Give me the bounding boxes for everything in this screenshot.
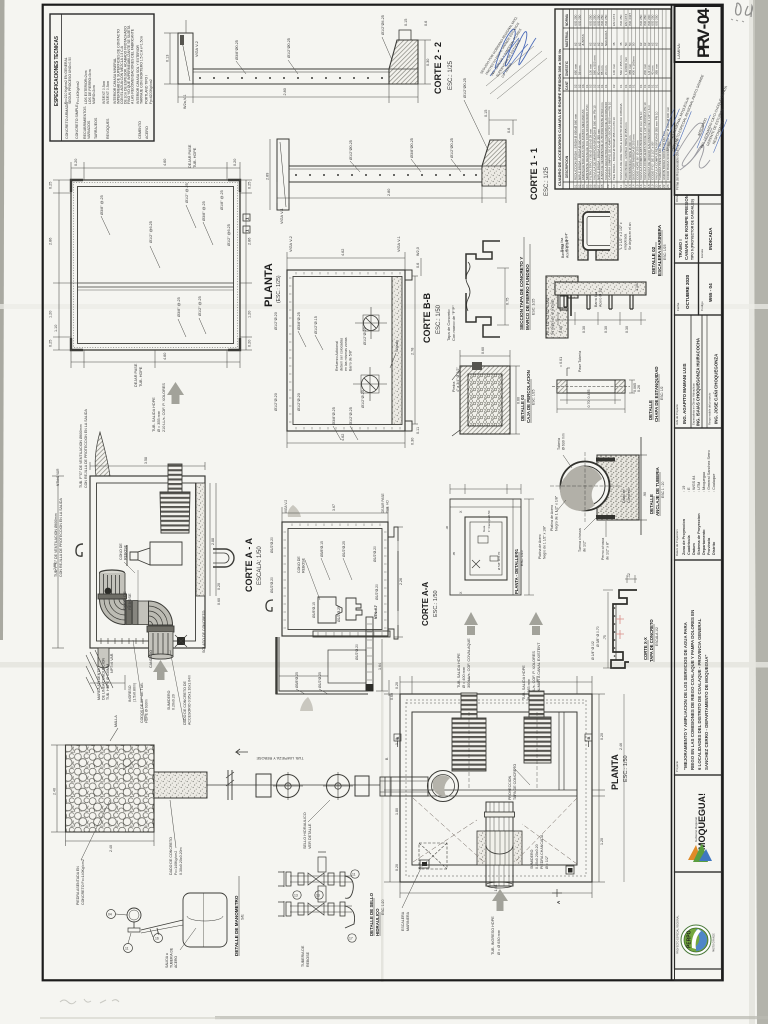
svg-text:17: 17 <box>349 937 353 941</box>
svg-text:Platina de Acero: Platina de Acero <box>550 505 554 531</box>
svg-text:.30: .30 <box>445 525 449 530</box>
fold crease lower <box>0 662 768 668</box>
faint red cross marks <box>616 615 624 639</box>
svg-text:MARCO DE FIERRO FUNDIDO: MARCO DE FIERRO FUNDIDO <box>525 264 530 330</box>
svg-text:PASTO GRANDE: PASTO GRANDE <box>713 933 716 952</box>
svg-text:"MEJORAMIENTO Y AMPLIACION DE: "MEJORAMIENTO Y AMPLIACION DE LOS SERVIC… <box>683 621 688 770</box>
limpieza pipe line with valves <box>207 749 380 849</box>
svg-text:Ø1/2"Ø.20: Ø1/2"Ø.20 <box>363 327 367 345</box>
svg-text:20 mm: 20 mm <box>604 65 608 75</box>
svg-text:DETALLE DE SELLO: DETALLE DE SELLO <box>369 892 374 936</box>
corte X-X channel profile <box>591 573 659 668</box>
svg-text:Ø1/2"Ø.20: Ø1/2"Ø.20 <box>375 584 379 600</box>
svg-text:10: 10 <box>612 184 616 188</box>
svg-text:TRAMO I: TRAMO I <box>678 239 683 258</box>
B section markers <box>394 734 592 747</box>
svg-text:S/E: S/E <box>241 914 245 920</box>
svg-text:TAPA DE CONCRETO: TAPA DE CONCRETO <box>649 619 654 662</box>
svg-text:16: 16 <box>155 937 159 941</box>
svg-text:0.6: 0.6 <box>424 21 428 26</box>
floor tick marks <box>101 638 143 644</box>
svg-text:0.25: 0.25 <box>248 182 252 189</box>
dims below <box>164 20 431 103</box>
svg-text:PROYECTO ESPECIAL REGIONAL: PROYECTO ESPECIAL REGIONAL <box>677 915 680 954</box>
svg-text:W2,0: W2,0 <box>416 247 420 256</box>
svg-text:Acero Ø 1/2: Acero Ø 1/2 <box>599 288 603 307</box>
svg-text:INDICADA: INDICADA <box>708 227 713 250</box>
svg-text:ESC.: 1/25: ESC.: 1/25 <box>448 60 454 90</box>
proyeccion tapa labels <box>508 764 517 800</box>
svg-text:13: 13 <box>294 894 298 898</box>
svg-text:ESC.: 1/25: ESC.: 1/25 <box>544 166 550 196</box>
svg-text:Pase Tuberia: Pase Tuberia <box>578 351 582 372</box>
rebar labels <box>274 312 399 425</box>
grey mound above left <box>288 505 301 517</box>
svg-text:0.30: 0.30 <box>604 326 608 333</box>
svg-text:600 x 160mm: 600 x 160mm <box>632 56 636 75</box>
left dimension chain <box>53 162 252 368</box>
svg-text:ESC.: 1/50: ESC.: 1/50 <box>623 755 629 782</box>
wall tick marks <box>284 524 387 629</box>
svg-text:0.11: 0.11 <box>416 427 420 434</box>
svg-text:TUB. INGRESO HDPE: TUB. INGRESO HDPE <box>491 916 495 955</box>
svg-text:Ø = 400 mm: Ø = 400 mm <box>462 667 466 688</box>
svg-text:Ø1/2"Ø.20: Ø1/2"Ø.20 <box>373 546 377 562</box>
corte A-A left chamber with elbow <box>52 409 263 725</box>
svg-text:1.10: 1.10 <box>54 325 58 332</box>
escalera sumidero label leader <box>402 868 421 908</box>
svg-text:Ø3/8"Ø.25: Ø3/8"Ø.25 <box>332 407 336 425</box>
svg-text:Ø1/2"Ø.20: Ø1/2"Ø.20 <box>361 390 365 408</box>
svg-text:DN/ESTIC: DN/ESTIC <box>565 60 569 76</box>
svg-text:TEE BRIDA - BRIDA Ø 560xØ 35: TEE BRIDA - BRIDA Ø 560xØ 355 mm PN 10 <box>612 117 616 180</box>
svg-text:Ø3/8" @.25: Ø3/8" @.25 <box>100 195 104 215</box>
svg-text:Se dejara en el an: Se dejara en el an <box>628 222 632 250</box>
svg-text:Ø = 1/2": Ø = 1/2" <box>545 855 549 869</box>
svg-text:.12: .12 <box>627 573 631 578</box>
caja de percolacion detail <box>452 347 536 436</box>
svg-text:0.26: 0.26 <box>637 385 641 392</box>
svg-text:ESCALERA: ESCALERA <box>401 911 405 931</box>
bolts <box>596 458 615 462</box>
right parapet profile steps <box>388 527 398 639</box>
svg-text:deben ser colocadas: deben ser colocadas <box>340 338 344 371</box>
svg-text:11: 11 <box>125 947 129 951</box>
svg-text:560 x 355 mm: 560 x 355 mm <box>619 55 623 75</box>
svg-text:0.20: 0.20 <box>395 864 399 871</box>
rebar labels <box>349 78 467 160</box>
svg-text:45: 45 <box>619 42 623 46</box>
svg-text:0.15: 0.15 <box>484 110 488 117</box>
svg-text:1.80: 1.80 <box>395 808 399 815</box>
svg-text:REBOSE: REBOSE <box>306 951 310 967</box>
sello hidraulico manifold detail <box>278 852 385 967</box>
pencil swirl signature <box>676 123 712 170</box>
corner angles dark <box>71 180 83 192</box>
svg-text:1.20: 1.20 <box>600 838 604 845</box>
svg-text:2.86: 2.86 <box>49 238 53 245</box>
dashed centerlines <box>468 712 470 790</box>
corte A-A left title <box>244 538 263 592</box>
svg-text:TARRAJEOS: TARRAJEOS <box>94 117 98 139</box>
svg-text:TUB. SALIDA HDPE: TUB. SALIDA HDPE <box>152 397 156 432</box>
central ingreso pipe <box>485 802 515 888</box>
svg-text:SOLADO DE CONCRETO: SOLADO DE CONCRETO <box>202 610 206 653</box>
svg-text:NTN=0 VAR: NTN=0 VAR <box>56 468 60 486</box>
bottom shelf slab <box>313 631 390 637</box>
svg-text:DEJAR PASE: DEJAR PASE <box>188 144 192 168</box>
svg-text:TUB. F°G° DE VENTILACION Ø60: TUB. F°G° DE VENTILACION Ø600mm <box>54 513 58 577</box>
sump below left <box>98 648 109 668</box>
svg-text:CONO DE: CONO DE <box>297 556 301 573</box>
svg-text:VIGA V-2: VIGA V-2 <box>289 236 293 252</box>
svg-text:DADO DE CONCRETO DE: DADO DE CONCRETO DE <box>183 681 187 725</box>
svg-text:B: B <box>586 737 591 740</box>
svg-text:W2a,V-1: W2a,V-1 <box>183 94 187 109</box>
svg-text:0.13: 0.13 <box>166 55 170 62</box>
svg-text:0.30x0.20x0.20m: 0.30x0.20x0.20m <box>179 847 183 875</box>
svg-text:Dado de: Dado de <box>622 489 626 503</box>
blue stamp text angled <box>665 71 739 167</box>
svg-text:Barra lisa: Barra lisa <box>561 244 565 258</box>
dado de concreto bottom <box>154 772 207 875</box>
svg-text:SECCION TAPA DE CONCRETO Y: SECCION TAPA DE CONCRETO Y <box>519 257 524 330</box>
svg-text:ESC: 1/25: ESC: 1/25 <box>532 299 536 315</box>
svg-text:CON REJILLA DE PROTECCION EN L: CON REJILLA DE PROTECCION EN LA SALIDA <box>59 498 63 577</box>
svg-text:0.75: 0.75 <box>506 298 510 305</box>
svg-text:PORTLAND TIPO I: PORTLAND TIPO I <box>145 75 149 104</box>
vent hook left <box>266 600 273 611</box>
right elbows <box>345 876 353 898</box>
svg-text:Ø1/2" @.25: Ø1/2" @.25 <box>198 296 202 316</box>
labels <box>165 947 178 968</box>
svg-text:MATERIAL: MATERIAL <box>565 31 569 47</box>
svg-text:Ø3/8"Ø0.25: Ø3/8"Ø0.25 <box>235 40 239 60</box>
svg-text:Ø3/8" @.25: Ø3/8" @.25 <box>177 297 181 317</box>
svg-text:DEJAR PASE: DEJAR PASE <box>381 493 385 513</box>
svg-text:: WGS 84: : WGS 84 <box>692 476 696 492</box>
svg-text:DETALLE: DETALLE <box>649 494 654 514</box>
top dimension chain <box>71 167 240 169</box>
svg-text:SEGUN PROCESO UNO=0.50: SEGUN PROCESO UNO=0.50 <box>68 57 72 104</box>
svg-text:1.18: 1.18 <box>395 738 399 745</box>
slab <box>193 69 389 84</box>
handwritten 04 top right corner <box>731 3 752 22</box>
sumidero dashed square with X <box>419 843 447 869</box>
svg-text:13: 13 <box>316 894 320 898</box>
fold crease upper <box>0 304 768 309</box>
svg-text:ISO 250: ISO 250 <box>604 14 608 26</box>
svg-text:ESCALA: 1/50: ESCALA: 1/50 <box>257 546 263 585</box>
corte 1-1 slab section <box>266 78 551 224</box>
svg-text:CONCRETO ARMADO: CONCRETO ARMADO <box>65 102 69 139</box>
svg-text:TUB. HD: TUB. HD <box>386 500 390 513</box>
svg-text:Ø1/2"Ø.20: Ø1/2"Ø.20 <box>270 537 274 553</box>
accessories table top right <box>555 9 671 189</box>
piedra asentada stone square <box>51 715 154 905</box>
svg-text:OCTUBRE 2020: OCTUBRE 2020 <box>685 274 690 309</box>
salida arrows and labels mid <box>457 612 543 700</box>
grey outflow arrow below planta <box>167 382 184 404</box>
svg-text:ISO 4427: ISO 4427 <box>628 13 632 26</box>
svg-text:Barra lisa: Barra lisa <box>594 292 598 307</box>
svg-text:ING. ISAIAS CHOQUEGONZA HUIRAC: ING. ISAIAS CHOQUEGONZA HUIRACOCHA <box>696 338 701 426</box>
speckled right wall strip <box>196 483 205 596</box>
svg-text:TUB. HDPE: TUB. HDPE <box>139 366 143 387</box>
svg-text:Ø1/2"Ø0.25: Ø1/2"Ø0.25 <box>349 140 353 160</box>
corte A-A mid title <box>421 582 439 626</box>
top run <box>290 875 352 877</box>
svg-text:355 mm: 355 mm <box>654 63 658 75</box>
circled numbers <box>107 910 163 953</box>
svg-text:0.20: 0.20 <box>248 340 252 347</box>
svg-text:Tuberia: Tuberia <box>557 438 561 450</box>
lower chamber <box>276 637 368 694</box>
svg-text:ANCLAJE DE TUBERIA: ANCLAJE DE TUBERIA <box>655 466 660 516</box>
svg-text:CONCRETO Fc=140Kg/cm2: CONCRETO Fc=140Kg/cm2 <box>81 859 85 905</box>
svg-text:LAMINA:: LAMINA: <box>676 43 681 59</box>
small dark square bottom right <box>566 866 574 874</box>
svg-text:ACERO: ACERO <box>145 126 149 139</box>
planta 1/50 bottom plan <box>380 676 629 955</box>
dashed diagonals lower chamber <box>413 798 577 864</box>
svg-text:CORTE 2 - 2: CORTE 2 - 2 <box>433 42 443 94</box>
titleblock engineers <box>675 315 722 428</box>
titleblock PRV-04 lamina box <box>675 6 722 62</box>
dado speckled <box>590 455 639 520</box>
svg-text:Responsable del proyecto: Responsable del proyecto <box>708 392 712 425</box>
scanner grey band right edge <box>753 0 768 1024</box>
cono de rebose funnel <box>130 542 182 565</box>
fold crease vertical bottom <box>381 662 384 982</box>
seccion tapa label <box>519 237 536 330</box>
inner partition <box>412 789 577 791</box>
sumidero piedra labels <box>530 834 549 869</box>
svg-text:VARIADOS: VARIADOS <box>87 120 91 139</box>
svg-text:ESC.: 1/50: ESC.: 1/50 <box>433 590 439 617</box>
svg-text:DETALLE: DETALLE <box>648 400 653 420</box>
svg-text:1.10: 1.10 <box>635 284 639 291</box>
left stubs <box>278 871 284 887</box>
chapa label <box>648 366 664 422</box>
row labels <box>65 102 149 139</box>
svg-text:Concreto: Concreto <box>627 488 631 503</box>
blue signature top center <box>479 16 547 99</box>
titleblock project title <box>675 560 722 775</box>
svg-text:PLANTA - DETALLE 01: PLANTA - DETALLE 01 <box>514 548 519 594</box>
svg-text:210 LL/s. COF. P. XOLORES: 210 LL/s. COF. P. XOLORES <box>162 383 166 432</box>
titleblock projection data <box>675 428 722 560</box>
svg-text:Gobierno Regional: Gobierno Regional <box>694 817 698 842</box>
dimension texts <box>49 159 252 360</box>
svg-text:Se dejara en el anclado: Se dejara en el anclado <box>551 299 555 335</box>
svg-text:CONCRETO SIMPLE: CONCRETO SIMPLE <box>75 104 79 139</box>
svg-text:Guia: Guia <box>482 525 486 532</box>
svg-text:Provincia: Provincia <box>707 537 711 555</box>
svg-text:6 LOCALIDADES DEL DISTRITO DE: 6 LOCALIDADES DEL DISTRITO DE COALAQUE -… <box>697 618 702 770</box>
svg-text:2.46: 2.46 <box>619 743 623 750</box>
seccion tapa de concreto profile <box>466 237 536 337</box>
svg-text:Fc=140Kg/cm2: Fc=140Kg/cm2 <box>76 81 80 104</box>
svg-text:ACERO: ACERO <box>174 956 178 968</box>
manifold title <box>369 892 385 936</box>
svg-text:DADO DE CONCRETO: DADO DE CONCRETO <box>169 837 173 875</box>
svg-text:TUB. SALIDA HDPE: TUB. SALIDA HDPE <box>522 665 526 700</box>
svg-text:ESC: 1/25: ESC: 1/25 <box>520 550 524 566</box>
dims <box>282 507 403 696</box>
svg-text:CORTE A-A: CORTE A-A <box>421 582 430 626</box>
flange pipe symbols inside <box>353 307 387 401</box>
svg-text:MOQUEGUA!: MOQUEGUA! <box>697 793 707 850</box>
svg-text:A LAS RECOMENDACIONES DEL: A LAS RECOMENDACIONES DEL FABRICANTE <box>131 28 135 104</box>
svg-text:Barro de 5/8": Barro de 5/8" <box>349 349 353 371</box>
svg-text:Refuerzo Adicional: Refuerzo Adicional <box>335 341 339 371</box>
svg-text:Ø3/8" @.25: Ø3/8" @.25 <box>202 201 206 221</box>
svg-text:Cuadricula: Cuadricula <box>687 534 691 555</box>
svg-text:Fy=4200Kg/cm2: Fy=4200Kg/cm2 <box>149 79 153 104</box>
svg-text:23: 23 <box>666 184 670 188</box>
svg-text:Datum de Proyeccion: Datum de Proyeccion <box>675 529 679 556</box>
hatched right end <box>389 40 418 84</box>
svg-text:ESPECIFICACIONES TECNICAS: ESPECIFICACIONES TECNICAS <box>54 36 60 106</box>
svg-text:Codigo: Codigo <box>700 301 704 311</box>
svg-text:01: 01 <box>619 84 623 88</box>
svg-text:TUB. HDPE: TUB. HDPE <box>193 147 197 168</box>
svg-text:Ø3/8"Ø.25: Ø3/8"Ø.25 <box>297 312 301 330</box>
svg-text:Jefe de Proyecto: Jefe de Proyecto <box>675 404 679 425</box>
svg-text:HDPE Ø 630m: HDPE Ø 630m <box>145 699 149 723</box>
svg-text:PL. 1 1/2" x 2 1/2" x 3/16": PL. 1 1/2" x 2 1/2" x 3/16" <box>546 296 550 335</box>
svg-text:0.425: 0.425 <box>587 390 591 399</box>
svg-text:PERPG: PERPG <box>687 930 693 948</box>
left wall <box>277 139 289 210</box>
svg-text:Ø 5/8" Ø 0.70: Ø 5/8" Ø 0.70 <box>497 551 501 570</box>
svg-text:MALLA: MALLA <box>114 715 118 727</box>
corner notches top/bottom right <box>405 270 412 280</box>
especificaciones tecnicas table <box>50 14 154 141</box>
svg-text:4.62: 4.62 <box>341 249 345 256</box>
svg-text:Ø1/2"Ø.20: Ø1/2"Ø.20 <box>274 312 278 330</box>
svg-text:(ESC.: 1/25): (ESC.: 1/25) <box>276 275 282 303</box>
svg-text:Obra: Obra <box>675 195 679 202</box>
svg-text:ESC. 1:20: ESC. 1:20 <box>381 899 385 915</box>
svg-text:Ø1/2"Ø0.25: Ø1/2"Ø0.25 <box>287 38 291 58</box>
A section marker bottom <box>552 889 562 897</box>
row lines vertical <box>573 9 666 189</box>
svg-text:11: 11 <box>619 185 623 188</box>
anclaje de tuberia detail <box>550 433 665 560</box>
svg-text:2.40: 2.40 <box>109 845 113 852</box>
svg-text:2.88: 2.88 <box>211 538 215 545</box>
svg-text:100 mm: 100 mm <box>612 63 616 75</box>
svg-text:Ø1/2"Ø.25: Ø1/2"Ø.25 <box>342 541 346 557</box>
speckled block around pipe <box>477 831 522 865</box>
U loop right <box>213 549 234 567</box>
planta 1/25 title <box>263 263 282 307</box>
svg-text:CANDADO: CANDADO <box>149 650 153 668</box>
svg-text:Ø1/2"Ø.25: Ø1/2"Ø.25 <box>318 672 322 688</box>
svg-text:: General Sanchez Serro: : General Sanchez Serro <box>707 450 711 492</box>
funnel cono de rebose <box>318 597 342 623</box>
svg-text:: Moquegua: : Moquegua <box>702 471 706 492</box>
big pipe circle <box>561 462 610 511</box>
grey ingress arrow below <box>153 660 168 680</box>
svg-text:Platina de Acero: Platina de Acero <box>538 534 542 559</box>
svg-text:04: 04 <box>108 913 112 917</box>
svg-text:TUBERIA DE: TUBERIA DE <box>170 947 174 968</box>
svg-text:MURO=2cm: MURO=2cm <box>92 85 96 104</box>
svg-text:PIEDRA CHANCADA: PIEDRA CHANCADA <box>540 834 544 869</box>
svg-text:2.80: 2.80 <box>387 189 391 196</box>
first bend <box>100 599 126 625</box>
svg-text:DETALLE 02: DETALLE 02 <box>651 246 656 274</box>
svg-text:DE LINEA/CONDUCCION: DE LINEA/CONDUCCION <box>102 657 106 700</box>
faint pencil marks bottom left <box>60 999 119 1004</box>
svg-text:VIGA V-2: VIGA V-2 <box>195 41 199 57</box>
svg-text:TIPO 6 (PROYECTOR DE CAUDALES): TIPO 6 (PROYECTOR DE CAUDALES) <box>691 199 695 260</box>
marco detail with plate PL <box>546 232 578 338</box>
svg-text:DETALLE 03: DETALLE 03 <box>520 394 525 421</box>
svg-text:Ø 1/4" Ø 1/2: Ø 1/4" Ø 1/2 <box>591 641 595 660</box>
svg-text:4.62: 4.62 <box>341 434 345 441</box>
svg-text:ISO 250: ISO 250 <box>577 14 581 26</box>
svg-text:: 19: : 19 <box>682 486 686 492</box>
svg-text:Ø3/8"Ø.25: Ø3/8"Ø.25 <box>295 672 299 688</box>
rebar labels with leaders <box>100 144 231 387</box>
svg-text:NPT=6 VAR.: NPT=6 VAR. <box>110 653 114 673</box>
svg-text:INT/EXT 0.5cm: INT/EXT 0.5cm <box>106 81 110 104</box>
svg-text:ISO 250: ISO 250 <box>619 14 623 26</box>
svg-text:Fc=140Kg/cm2: Fc=140Kg/cm2 <box>174 851 178 875</box>
svg-text:Ø1/8"Ø.15: Ø1/8"Ø.15 <box>312 602 316 618</box>
svg-text:TUB. SALIDA HDPE: TUB. SALIDA HDPE <box>457 653 461 688</box>
svg-text:2.40: 2.40 <box>53 788 57 795</box>
svg-text:Solado: Solado <box>395 340 399 352</box>
flange band <box>98 594 127 599</box>
chapa de estanquidad detail <box>552 351 664 422</box>
svg-text:09: 09 <box>606 184 610 188</box>
slab <box>289 166 482 182</box>
svg-text:56 mm: 56 mm <box>577 65 581 75</box>
svg-text:Con marco de "F"P": Con marco de "F"P" <box>451 305 456 341</box>
svg-text:.90: .90 <box>643 492 647 497</box>
svg-text:RIEGO EN LAS COMISIONES DE RIE: RIEGO EN LAS COMISIONES DE RIEGO COALAQU… <box>690 610 695 770</box>
labels <box>301 945 310 967</box>
rebar labels <box>270 537 379 688</box>
svg-text:ACCESORIO 0.95x1.10x1.04m: ACCESORIO 0.95x1.10x1.04m <box>188 675 192 725</box>
dims <box>270 110 517 210</box>
bottom pipe <box>147 626 174 632</box>
anchor dark square right of pipe <box>177 637 185 645</box>
svg-text:Ø1/2"Ø0.25: Ø1/2"Ø0.25 <box>463 78 467 98</box>
svg-text:Zona de Proyeccion: Zona de Proyeccion <box>682 518 686 555</box>
escalera label <box>651 224 667 276</box>
svg-text:0.70: 0.70 <box>587 401 591 408</box>
svg-text:0.20: 0.20 <box>233 159 237 166</box>
corte X-X label <box>643 619 659 662</box>
svg-text:0.20x0.20: 0.20x0.20 <box>172 694 176 710</box>
svg-text:Ø 3/8" Ø 0.70: Ø 3/8" Ø 0.70 <box>596 626 600 647</box>
bottom dimension chain <box>71 361 240 363</box>
union flanges horizontal <box>126 601 132 625</box>
bottom run <box>290 905 352 907</box>
planta 1/50 title <box>610 754 629 790</box>
slab with hanging anchor pins <box>555 282 646 333</box>
svg-text:REBOSE: REBOSE <box>124 544 128 560</box>
header labels <box>565 13 569 178</box>
svg-text:08: 08 <box>600 184 604 188</box>
corte B-B title <box>422 293 456 343</box>
